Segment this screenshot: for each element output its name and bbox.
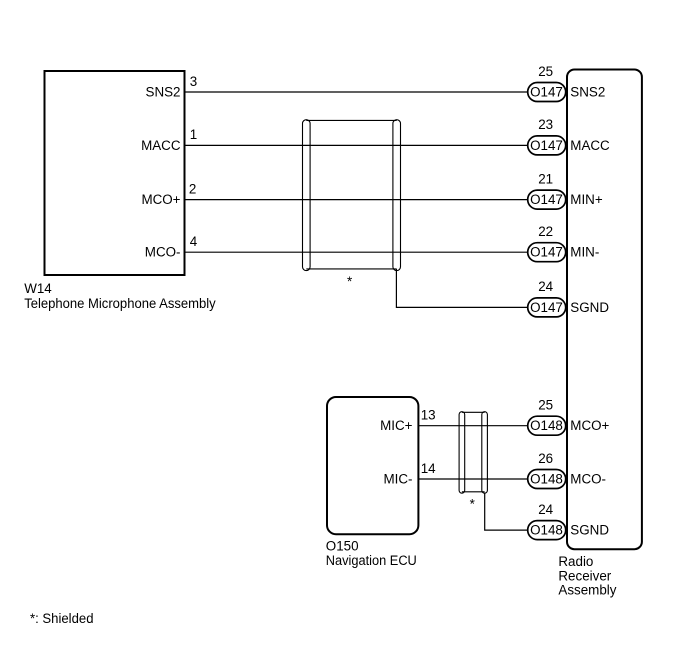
- svg-text:*: Shielded: *: Shielded: [30, 611, 94, 626]
- wire MCO-/MIN- (W14 pin 4 to O147 pin 22): [186, 251, 528, 253]
- svg-text:O148: O148: [530, 472, 563, 487]
- svg-text:MCO+: MCO+: [570, 418, 609, 433]
- wire SNS2 (W14 pin 3 to O147 pin 25): [186, 91, 528, 93]
- svg-text:23: 23: [538, 117, 553, 132]
- svg-text:SNS2: SNS2: [146, 85, 181, 100]
- svg-text:25: 25: [538, 398, 553, 413]
- component O150 Navigation ECU box: [327, 397, 418, 534]
- svg-text:1: 1: [190, 127, 197, 142]
- svg-text:O150: O150: [326, 539, 359, 554]
- svg-text:MIN+: MIN+: [570, 192, 603, 207]
- svg-text:MIC+: MIC+: [380, 418, 413, 433]
- wire MIC- (O150 pin 14 to O148 pin 26): [419, 478, 528, 480]
- connector oval O148 pin 24: [528, 521, 566, 540]
- shield 1 bottom line: [306, 268, 396, 270]
- connector oval O147 pin 21: [528, 190, 566, 209]
- shield 2 bottom line: [462, 491, 485, 493]
- svg-text:O147: O147: [530, 85, 563, 100]
- svg-text:Radio: Radio: [558, 554, 593, 569]
- svg-text:*: *: [347, 274, 352, 289]
- shield 2 left capsule: [459, 412, 465, 494]
- svg-text:Telephone Microphone Assembly: Telephone Microphone Assembly: [24, 296, 216, 311]
- svg-text:26: 26: [538, 451, 553, 466]
- svg-text:24: 24: [538, 502, 553, 517]
- shield 1 right capsule: [393, 120, 401, 271]
- svg-text:22: 22: [538, 224, 553, 239]
- svg-text:O147: O147: [530, 138, 563, 153]
- connector oval O148 pin 26: [528, 470, 566, 489]
- svg-text:Receiver: Receiver: [558, 568, 611, 583]
- svg-text:MACC: MACC: [141, 138, 181, 153]
- svg-text:SNS2: SNS2: [570, 85, 605, 100]
- wire MCO+/MIN+ (W14 pin 2 to O147 pin 21): [186, 199, 528, 201]
- connector oval O147 pin 22: [528, 243, 566, 262]
- connector oval O147 pin 25: [528, 83, 566, 102]
- connector oval O147 pin 23: [528, 136, 566, 155]
- svg-text:4: 4: [190, 234, 198, 249]
- svg-text:MIC-: MIC-: [383, 472, 412, 487]
- shield 1 left capsule: [303, 120, 311, 271]
- shield 2 top line: [462, 411, 485, 413]
- svg-text:*: *: [470, 497, 475, 512]
- wire MIC+ (O150 pin 13 to O148 pin 25): [419, 425, 528, 427]
- svg-text:O148: O148: [530, 418, 563, 433]
- svg-text:SGND: SGND: [570, 300, 609, 315]
- svg-text:O147: O147: [530, 300, 563, 315]
- svg-text:Assembly: Assembly: [558, 583, 616, 598]
- svg-text:MACC: MACC: [570, 138, 610, 153]
- svg-text:W14: W14: [24, 281, 52, 296]
- connector oval O148 pin 25: [528, 416, 566, 435]
- wire shield drain to SGND (O147 pin 24): [396, 269, 527, 307]
- svg-text:2: 2: [189, 181, 196, 196]
- svg-text:MCO-: MCO-: [570, 472, 606, 487]
- component Radio Receiver Assembly box: [567, 70, 642, 550]
- shield 2 right capsule: [482, 412, 488, 494]
- connector oval O147 pin 24: [528, 298, 566, 317]
- shield 1 top line: [306, 119, 396, 121]
- wire MACC (W14 pin 1 to O147 pin 23): [186, 144, 528, 146]
- wire shield drain to SGND (O148 pin 24): [485, 493, 528, 530]
- svg-text:3: 3: [190, 74, 197, 89]
- svg-text:O147: O147: [530, 245, 563, 260]
- svg-text:O147: O147: [530, 192, 563, 207]
- svg-text:O148: O148: [530, 523, 563, 538]
- svg-text:Navigation ECU: Navigation ECU: [326, 553, 417, 568]
- svg-text:14: 14: [421, 461, 436, 476]
- svg-text:13: 13: [421, 408, 436, 423]
- svg-text:21: 21: [538, 171, 553, 186]
- svg-text:24: 24: [538, 279, 553, 294]
- svg-text:MIN-: MIN-: [570, 245, 599, 260]
- svg-text:SGND: SGND: [570, 523, 609, 538]
- component W14 Telephone Microphone Assembly box: [45, 71, 185, 275]
- svg-text:MCO+: MCO+: [141, 192, 180, 207]
- svg-text:25: 25: [538, 64, 553, 79]
- svg-text:MCO-: MCO-: [145, 245, 181, 260]
